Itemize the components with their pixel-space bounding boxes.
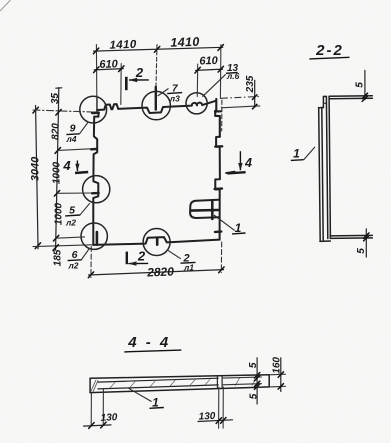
- label 13 underline: [226, 72, 238, 75]
- top-left corner extension stub: [96, 96, 98, 112]
- leader 6/л2: [81, 248, 89, 260]
- section mark 2 top: thick bar: [125, 77, 128, 90]
- 4-4 dim line 160: [280, 358, 282, 392]
- 4-4 inner box divider right: [221, 376, 223, 387]
- dim chain line left inner: [56, 112, 59, 250]
- dash-dot centerline top-left: [33, 110, 92, 112]
- 4-4 leader to bar: [128, 388, 152, 402]
- extension line right x220.5: [219, 45, 222, 99]
- callout circle C1 top-left (9/л4): [80, 96, 107, 123]
- callout circle C3 top-right (13/л6): [186, 93, 207, 114]
- 4-4 left 130 leg outer: [90, 393, 92, 426]
- extension line left x96: [95, 45, 98, 110]
- underline of label 2: [181, 261, 196, 264]
- 4-4 tick 160 a: [278, 372, 283, 378]
- 4-4 inner bottom line: [98, 385, 218, 389]
- callout circle C5 left-bottom (6/л2): [81, 223, 107, 249]
- section mark 4 left: arrowhead: [75, 164, 79, 172]
- 4-4 core hatch marks: [110, 377, 257, 388]
- leader circle C6 to label 2: [168, 250, 181, 258]
- bottom-middle rib bar: [156, 238, 159, 245]
- dim 235: tick b: [252, 104, 257, 110]
- right edge notch dash 1: [215, 145, 222, 148]
- top-middle rib bar: [155, 87, 157, 110]
- callout circle C4 left-middle (5/л2): [83, 176, 110, 203]
- extension bottom-left corner: [33, 245, 92, 247]
- extension left y238: [56, 237, 85, 238]
- panel outline (plan): [97, 101, 216, 113]
- tick 610 right b: [218, 66, 223, 72]
- section mark 2 bottom: arrowhead: [128, 261, 136, 265]
- top-right corner notch dash: [215, 110, 221, 112]
- dim 235: extension lower: [221, 106, 260, 108]
- dim 35 top bar: [56, 87, 62, 89]
- 2-2 top step shoulder: [319, 96, 327, 107]
- dim 235: dim line: [254, 80, 256, 108]
- title 2-2 underline: [309, 57, 349, 59]
- extension left y150: [58, 149, 91, 151]
- right edge notch dash 2: [215, 187, 222, 190]
- 2-2 bottom flange upper line: [330, 234, 372, 237]
- section mark 4 left: thick bar: [75, 172, 88, 173]
- dim 235: extension upper: [221, 96, 260, 98]
- 4-4 label 1 underline: [150, 407, 164, 410]
- title 4-4 underline: [124, 350, 181, 352]
- left edge upper thick dash: [91, 148, 97, 151]
- extension 2820 left dashed: [90, 247, 92, 278]
- section mark 2 top: arrowhead: [129, 78, 137, 82]
- 2-2 strip left wall inner line: [322, 108, 323, 242]
- section mark 4 left: arrow line: [76, 161, 78, 172]
- right corner dashed centerline below: [221, 100, 223, 131]
- dim line 2820: [89, 270, 224, 275]
- tick left chain y112: [56, 109, 61, 115]
- 4-4 tick 5 top b: [254, 375, 259, 381]
- 4-4 inner box divider left: [216, 376, 218, 387]
- left edge with bumps: [93, 114, 98, 245]
- 2-2 top 5 tick a: [362, 93, 367, 98]
- pocket middle thick bar: [191, 209, 218, 212]
- label 7 underline: [167, 93, 182, 94]
- leader 9/л4: [79, 123, 87, 134]
- leader 7/л3: [158, 89, 169, 97]
- extension left y193: [57, 192, 92, 194]
- leader 5/л2: [80, 203, 90, 215]
- tick 2820 left: [88, 272, 93, 278]
- section mark 2 top: arrow line: [129, 79, 149, 81]
- 4-4 tick 5 bottom b: [254, 384, 259, 390]
- 4-4 right extension bottom: [269, 385, 285, 388]
- 4-4 left 130 tick b: [101, 422, 106, 428]
- tick left chain y238: [53, 235, 58, 241]
- tick 1410 left: [93, 48, 98, 54]
- tick 610 left b: [119, 66, 124, 72]
- 4-4 bar left cap: [89, 378, 91, 392]
- section mark 4 right: arrowhead: [238, 163, 242, 171]
- 4-4 right extension mid bottom: [222, 384, 261, 385]
- callout circle C6 bottom-middle (2/л1): [143, 229, 170, 256]
- 4-4 left 130 dim line: [84, 425, 112, 426]
- dim 35 line: [57, 88, 59, 113]
- tick left chain y193: [54, 190, 59, 196]
- 4-4 right 130 tick b: [221, 418, 226, 424]
- dim line 610 left: [94, 69, 123, 70]
- page corner crease mark: [0, 0, 11, 11]
- 2-2 strip right wall outer line: [329, 96, 330, 238]
- label 5 underline: [65, 214, 80, 217]
- label 6 underline: [68, 259, 82, 262]
- right edge mid centerline dash: [226, 172, 235, 173]
- callout circle C2 top-middle (7/л3): [142, 91, 170, 119]
- tick 1410 right: [218, 45, 223, 51]
- bottom-left corner rib bar: [96, 232, 99, 245]
- 2-2 top flange upper line: [329, 95, 372, 98]
- right edge upper notch: [215, 137, 220, 240]
- tick 610 left a: [94, 67, 99, 73]
- section mark 4 right: arrow line: [239, 151, 241, 170]
- 2-2 strip left wall outer line: [319, 108, 321, 242]
- 4-4 right 130 dim line: [198, 420, 233, 422]
- right edge notch dash 3: [215, 230, 221, 233]
- leader pocket to label 1: [214, 215, 235, 230]
- 4-4 tick 5 top a: [254, 373, 259, 379]
- 2-2 top flange lower line: [329, 97, 372, 100]
- 4-4 right 130 leg right: [222, 387, 224, 428]
- underline label 1: [232, 232, 246, 235]
- tick 3040 top: [33, 107, 38, 113]
- 4-4 left 130 tick a: [89, 423, 94, 429]
- extension line x157 middle dashed: [156, 45, 157, 87]
- dim line 610 right: [196, 69, 223, 70]
- extension 2820 right dashed: [220, 242, 222, 273]
- 2-2 strip right wall inner line: [326, 97, 327, 239]
- tick 2820 right: [219, 267, 224, 273]
- extension line x121 (610 left): [120, 64, 122, 105]
- 4-4 left cap hatch: [91, 380, 98, 392]
- left edge middle thick dash: [92, 192, 99, 195]
- extension line x197.5 (610 right): [196, 64, 198, 97]
- section mark 2 bottom: thick bar: [126, 252, 128, 265]
- 2-2 bottom 5 tick a: [364, 233, 369, 238]
- dim line 3040 outer: [36, 106, 39, 249]
- bottom edge with keyway notch: [93, 237, 219, 245]
- 4-4 bar outer bottom: [90, 387, 269, 393]
- 4-4 right 130 leg left: [218, 387, 220, 428]
- 4-4 tick 5 bottom a: [254, 381, 259, 387]
- leader 13/л.6: [202, 74, 225, 96]
- 4-4 inner top line: [98, 378, 218, 382]
- lifting pocket (detail 1): [190, 200, 218, 218]
- 4-4 right 130 tick a: [216, 418, 221, 424]
- panel top-right corner step: [215, 99, 220, 137]
- 4-4 dim line 5/5: [256, 358, 258, 404]
- 2-2 bottom flange lower line: [330, 237, 372, 240]
- 4-4 right extension mid top: [222, 377, 261, 378]
- 2-2 top 5 dim extension line: [364, 70, 366, 99]
- 2-2 bottom cap: [320, 240, 330, 242]
- tick 3040 bottom: [35, 243, 40, 249]
- section mark 2 bottom: arrow line: [128, 262, 148, 264]
- section mark 4 right: thick bar: [227, 172, 245, 173]
- tick 610 right a: [195, 67, 200, 73]
- 2-2 label 1 underline: [291, 159, 304, 162]
- 2-2 leader to strip: [304, 147, 315, 160]
- 2-2 top step inner notch: [324, 102, 327, 104]
- 4-4 bar right cap: [268, 375, 270, 387]
- 4-4 tick 160 b: [278, 384, 283, 390]
- tick 1410 middle: [154, 46, 159, 52]
- tick left chain y247.5: [53, 245, 58, 251]
- 2-2 bottom 5 tick b: [364, 236, 369, 241]
- dim 235: tick a: [252, 94, 257, 100]
- 4-4 right extension top: [269, 373, 285, 376]
- 4-4 bar outer top: [90, 375, 269, 379]
- pocket rib vertical bar: [211, 200, 214, 219]
- dim line 1410+1410: [94, 47, 223, 51]
- label 9 underline: [66, 133, 79, 136]
- 2-2 top 5 tick b: [362, 96, 367, 101]
- 4-4 left 130 leg inner: [102, 389, 104, 425]
- 2-2 bottom 5 dim extension line: [365, 229, 367, 257]
- tick left chain y150: [55, 148, 60, 154]
- top-left corner thick dash: [92, 111, 99, 114]
